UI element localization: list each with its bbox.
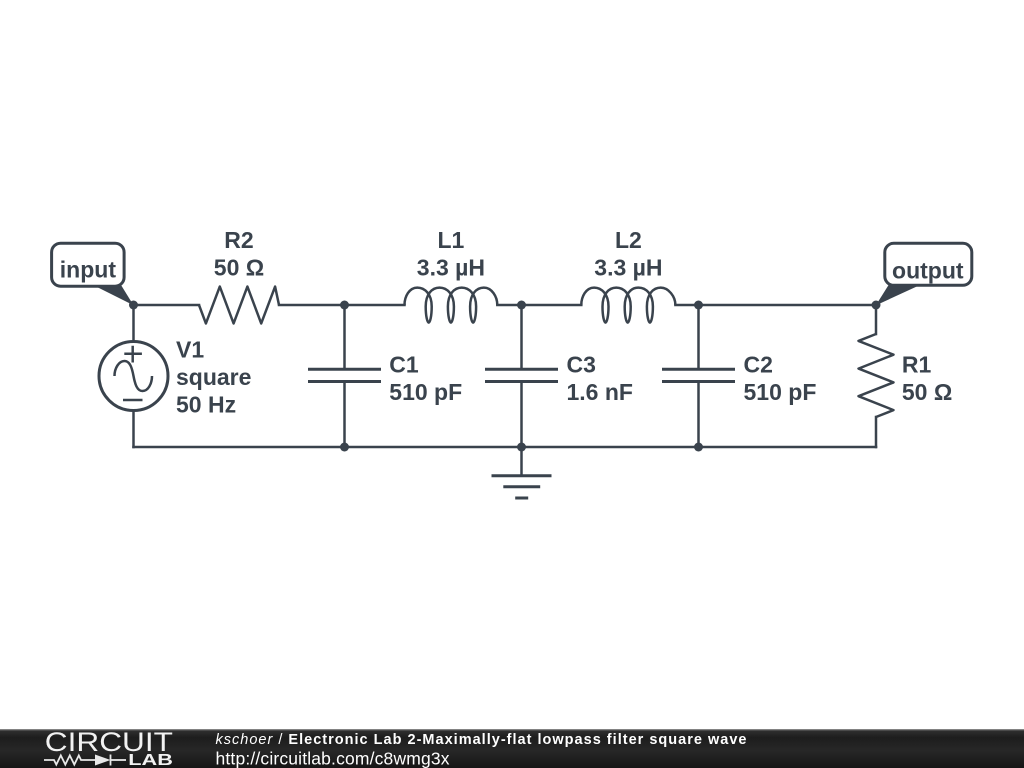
svg-text:L1: L1 — [437, 227, 464, 253]
svg-text:C2: C2 — [744, 352, 773, 378]
svg-text:510 pF: 510 pF — [389, 379, 462, 405]
svg-text:C1: C1 — [389, 352, 419, 378]
svg-text:510 pF: 510 pF — [744, 379, 817, 405]
svg-text:50 Hz: 50 Hz — [176, 392, 236, 418]
svg-text:http://circuitlab.com/c8wmg3x: http://circuitlab.com/c8wmg3x — [216, 749, 450, 768]
svg-text:R1: R1 — [902, 352, 932, 378]
svg-text:L2: L2 — [615, 227, 642, 253]
svg-text:LAB: LAB — [128, 752, 173, 768]
svg-text:1.6 nF: 1.6 nF — [567, 379, 633, 405]
svg-text:3.3 µH: 3.3 µH — [417, 255, 485, 281]
svg-text:square: square — [176, 364, 251, 390]
svg-text:50 Ω: 50 Ω — [902, 379, 952, 405]
svg-text:kschoer / Electronic Lab 2-Max: kschoer / Electronic Lab 2-Maximally-fla… — [216, 732, 747, 748]
svg-text:R2: R2 — [224, 227, 253, 253]
svg-text:C3: C3 — [567, 352, 596, 378]
svg-text:input: input — [60, 257, 117, 283]
svg-text:V1: V1 — [176, 336, 204, 362]
svg-text:50 Ω: 50 Ω — [214, 255, 264, 281]
svg-text:3.3 µH: 3.3 µH — [594, 255, 662, 281]
svg-text:output: output — [892, 258, 964, 284]
